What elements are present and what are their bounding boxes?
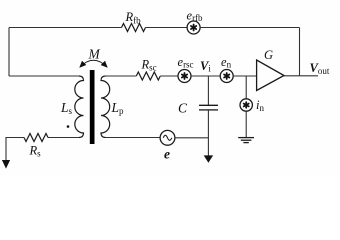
wire e_rsc to e_n through node Vi	[191, 75, 220, 77]
resistor R2 Rs zigzag	[24, 134, 48, 142]
ground symbol	[238, 138, 254, 143]
wire left vertical	[8, 28, 10, 77]
svg-text:in: in	[256, 98, 264, 113]
svg-text:M: M	[88, 46, 101, 61]
noise source e_rfb circle	[187, 21, 200, 34]
wire bottom node to ground arrow	[207, 138, 209, 157]
wire Lp bottom to source e	[106, 137, 161, 139]
svg-text:Ls: Ls	[60, 100, 73, 116]
svg-text:Rsc: Rsc	[141, 57, 157, 72]
wire top right segment	[200, 27, 299, 29]
wire top middle segment	[146, 27, 188, 29]
svg-text:ersc: ersc	[178, 55, 194, 70]
svg-text:Rfb: Rfb	[125, 10, 142, 25]
wire top-left segment	[9, 27, 122, 29]
wire Rsc to e_rsc	[160, 75, 178, 77]
op-amp U1 G triangle	[257, 60, 284, 91]
wire e_n to amplifier input	[233, 75, 256, 77]
wire source e to bottom node	[175, 137, 209, 139]
wire amplifier output	[284, 75, 318, 77]
noise source e_rsc asterisk	[182, 73, 187, 79]
resistor R3 Rsc zigzag	[136, 72, 160, 80]
svg-text:erfb: erfb	[187, 9, 204, 24]
source e circle	[160, 130, 175, 145]
wire Ls bottom to Rs	[48, 137, 79, 139]
svg-text:C: C	[178, 101, 188, 116]
wire node to i_n	[245, 76, 247, 99]
wire Lp top to Rsc	[106, 75, 137, 77]
wire node Vi to capacitor	[207, 76, 209, 105]
wire capacitor to bottom node	[207, 110, 209, 138]
transformer core	[90, 70, 95, 144]
ground arrow left	[2, 160, 10, 169]
svg-text:Vi: Vi	[200, 59, 211, 74]
wire feedback vertical	[299, 28, 301, 76]
svg-text:en: en	[221, 55, 232, 70]
inductor Ls winding	[75, 76, 84, 138]
noise source e_n asterisk	[224, 73, 229, 79]
source e sine	[163, 135, 172, 140]
svg-text:Vout: Vout	[310, 61, 330, 76]
capacitor C1 plates	[199, 104, 218, 106]
inductor Lp winding	[101, 76, 110, 138]
noise source e_n circle	[220, 70, 233, 83]
svg-text:Lp: Lp	[111, 100, 125, 116]
svg-text:Rs: Rs	[29, 144, 42, 159]
svg-text:e: e	[164, 147, 170, 162]
noise source e_rsc circle	[178, 70, 191, 83]
noise source i_n asterisk	[244, 102, 249, 108]
ground arrow bottom	[204, 155, 213, 162]
wire to Ls top	[9, 75, 79, 77]
wire Rs to ground arrow	[6, 138, 24, 162]
wire i_n to ground	[245, 111, 247, 137]
resistor R1 Rfb zigzag	[122, 24, 146, 32]
mutual inductance M arrow	[80, 60, 107, 67]
svg-text:G: G	[264, 48, 273, 62]
noise source e_rfb asterisk	[191, 25, 196, 31]
polarity dot Ls	[67, 125, 70, 128]
noise source i_n circle	[240, 99, 252, 111]
